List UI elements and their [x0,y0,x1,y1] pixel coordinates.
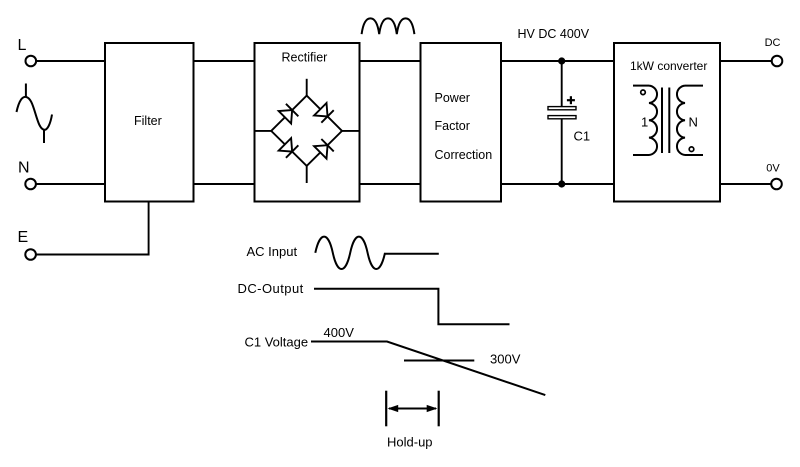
node junction bottom [558,180,565,187]
wire Filter to Rectifier top [194,60,255,62]
svg-text:E: E [18,229,29,246]
wire E to Filter bottom [36,202,148,255]
svg-text:C1: C1 [574,128,591,143]
wire Rectifier to PFC bottom [360,183,421,185]
svg-text:400V: 400V [324,325,355,340]
transformer primary winding [633,86,657,155]
svg-text:Filter: Filter [134,114,162,128]
terminal E [25,249,36,260]
transformer polarity dot primary [641,90,646,95]
svg-text:N: N [689,115,698,130]
AC input flat segment [385,253,439,255]
wire L to Filter [37,60,106,62]
transformer secondary winding [677,86,703,155]
svg-text:Correction: Correction [435,148,493,162]
svg-text:HV DC 400V: HV DC 400V [518,27,590,41]
C1 voltage waveform [311,342,545,396]
bridge bottom stub [306,166,308,183]
svg-text:N: N [18,160,30,177]
wire converter to DC [720,60,772,62]
wire PFC to converter bottom [501,183,614,185]
bridge diamond [271,96,342,166]
wire converter to 0V [720,183,771,185]
hold-up arrow [388,405,438,412]
svg-text:DC: DC [765,37,781,49]
Rectifier block [255,43,360,202]
svg-text:AC Input: AC Input [247,244,298,259]
diode D4 lower-right [314,139,334,159]
svg-text:Factor: Factor [435,119,470,133]
plus sign [567,96,575,104]
terminal L [26,56,37,67]
terminal 0V [771,179,782,190]
transformer core [662,88,669,154]
diode D3 lower-left [279,138,299,158]
svg-text:1: 1 [641,115,648,130]
AC source symbol [17,84,53,144]
svg-text:DC-Output: DC-Output [238,281,304,296]
diode D2 upper-right [314,103,334,123]
transformer polarity dot secondary [689,147,694,152]
1kW converter block [614,43,720,202]
svg-text:0V: 0V [766,163,780,175]
svg-text:C1 Voltage: C1 Voltage [245,335,309,350]
svg-text:Rectifier: Rectifier [282,51,328,65]
inductor L1 [362,18,415,34]
wire Filter to Rectifier bottom [194,183,255,185]
hold-up right bar [438,391,440,427]
capacitor C1 [548,61,576,184]
svg-text:Hold-up: Hold-up [387,435,433,450]
svg-text:Power: Power [435,91,470,105]
terminal DC [772,56,783,67]
svg-text:1kW converter: 1kW converter [630,59,707,73]
bridge top stub [306,79,308,96]
terminal N [25,179,36,190]
wire Rectifier to PFC top [360,60,421,62]
DC output waveform [314,289,510,325]
svg-text:300V: 300V [490,351,521,366]
svg-text:L: L [18,37,27,54]
300V reference line [404,360,474,362]
node junction top [558,57,565,64]
Filter block [105,43,194,202]
diode D1 upper-left [279,104,299,124]
AC input sine wave [315,237,385,269]
bridge right stub [342,130,360,132]
PFC block [421,43,502,202]
bridge left stub [255,130,272,132]
wire N to Filter [36,183,105,185]
wire PFC to converter top [501,60,614,62]
hold-up left bar [385,391,387,427]
